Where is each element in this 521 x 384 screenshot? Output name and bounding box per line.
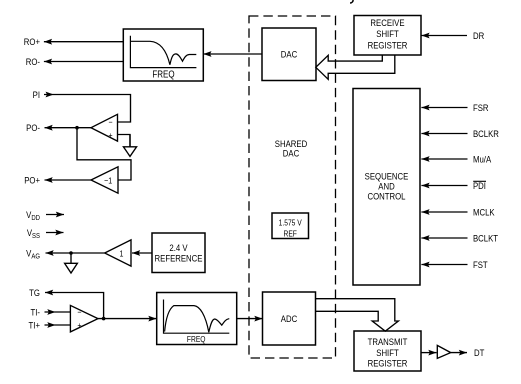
svg-text:SHIFT: SHIFT	[376, 28, 399, 39]
svg-text:BCLKT: BCLKT	[473, 233, 499, 244]
svg-text:PDI: PDI	[473, 180, 486, 191]
svg-text:REGISTER: REGISTER	[368, 40, 408, 51]
svg-text:REFERENCE: REFERENCE	[155, 253, 203, 264]
svg-text:TI-: TI-	[30, 307, 40, 318]
svg-text:RO-: RO-	[26, 56, 40, 67]
svg-text:TRANSMIT: TRANSMIT	[368, 336, 408, 347]
svg-text:FREQ: FREQ	[187, 334, 206, 344]
svg-text:1.575 V: 1.575 V	[279, 218, 302, 228]
svg-text:PI: PI	[33, 89, 40, 100]
svg-text:RECEIVE: RECEIVE	[370, 17, 404, 28]
svg-text:DT: DT	[474, 347, 485, 358]
svg-text:PO-: PO-	[26, 122, 40, 133]
svg-text:ADC: ADC	[281, 313, 297, 324]
svg-text:TG: TG	[29, 287, 40, 298]
svg-text:RO+: RO+	[24, 36, 40, 47]
svg-text:−: −	[77, 308, 81, 318]
svg-text:FST: FST	[473, 259, 488, 270]
svg-text:REGISTER: REGISTER	[368, 358, 408, 369]
svg-text:TI+: TI+	[29, 320, 40, 331]
svg-text:VDD: VDD	[26, 209, 40, 222]
svg-text:REF: REF	[283, 229, 297, 239]
svg-text:CONTROL: CONTROL	[367, 191, 405, 202]
svg-text:BCLKR: BCLKR	[473, 128, 499, 139]
svg-text:−: −	[108, 117, 112, 127]
svg-text:Mu/A: Mu/A	[473, 154, 491, 165]
svg-text:FSR: FSR	[473, 102, 489, 113]
svg-text:PO+: PO+	[24, 175, 40, 186]
svg-text:VSS: VSS	[27, 227, 41, 240]
svg-text:FREQ: FREQ	[152, 69, 174, 80]
svg-text:MCLK: MCLK	[473, 207, 495, 218]
svg-text:−1: −1	[104, 176, 112, 186]
svg-text:2.4 V: 2.4 V	[169, 242, 187, 253]
svg-text:+: +	[77, 321, 81, 331]
svg-text:DAC: DAC	[281, 49, 297, 60]
svg-text:VAG: VAG	[26, 248, 40, 261]
svg-text:SHIFT: SHIFT	[376, 347, 399, 358]
svg-text:DR: DR	[473, 30, 484, 41]
svg-text:1: 1	[120, 249, 124, 259]
svg-text:DAC: DAC	[283, 148, 299, 159]
svg-text:+: +	[108, 130, 112, 140]
